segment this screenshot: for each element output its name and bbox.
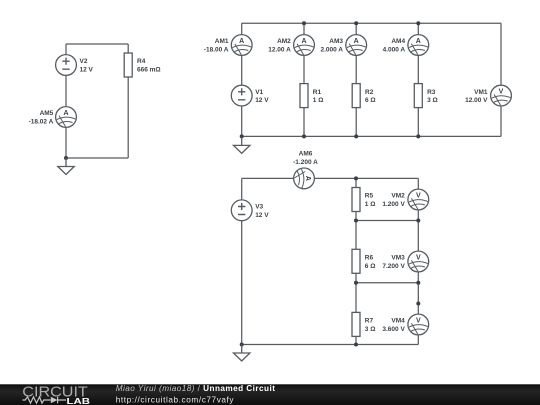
logo diode (51, 397, 58, 404)
svg-text:1 Ω: 1 Ω (365, 201, 376, 208)
svg-text:V1: V1 (255, 89, 263, 96)
svg-text:V2: V2 (80, 58, 88, 65)
svg-text:3.600 V: 3.600 V (382, 326, 405, 333)
svg-text:3 Ω: 3 Ω (427, 97, 438, 104)
svg-text:VM4: VM4 (391, 318, 405, 325)
svg-text:12.00 A: 12.00 A (268, 46, 291, 53)
wire R2 bottom lead (355, 108, 357, 137)
voltage source V1 (231, 85, 252, 106)
wire VM3 bottom lead (417, 272, 419, 283)
wire bottom rail left circuit (66, 157, 128, 159)
node row2 R5 bottom (354, 219, 358, 223)
resistor R1 (300, 84, 308, 108)
wire R7 bottom lead (355, 336, 357, 344)
wire AM3 to R2 (355, 55, 357, 83)
svg-text:R2: R2 (365, 89, 374, 96)
wire AM4 to R3 (417, 55, 419, 83)
svg-text:12.00 V: 12.00 V (465, 97, 488, 104)
svg-text:4.000 A: 4.000 A (383, 46, 406, 53)
ammeter AM3 (346, 35, 367, 56)
wire VM2 top lead (417, 178, 419, 189)
svg-text:3 Ω: 3 Ω (365, 326, 376, 333)
wire R3 bottom lead (417, 108, 419, 137)
wire AM2 top lead (303, 23, 305, 34)
voltmeter VM4 (408, 314, 429, 335)
svg-text:AM4: AM4 (391, 38, 405, 45)
resistor R6 (352, 249, 360, 273)
resistor R4 (124, 53, 132, 77)
wire VM4 bottom lead (417, 335, 419, 345)
wire R6 bottom lead (355, 273, 357, 283)
wire V2 to AM5 (65, 75, 67, 106)
wire R4 bottom lead down (127, 77, 129, 158)
svg-text:R3: R3 (427, 89, 436, 96)
voltage source V3 (231, 200, 252, 221)
wire R1 bottom lead (303, 108, 305, 137)
ammeter AM4 (408, 35, 429, 56)
wire VM1 branch top (500, 23, 502, 85)
wire node row R5-VM2 (356, 220, 418, 222)
wire VM3 top lead (417, 221, 419, 252)
wire R4 top lead (127, 44, 129, 53)
wire VM1 bottom lead (500, 106, 502, 136)
ground top circuit (234, 137, 250, 154)
wire R5 bottom lead (355, 212, 357, 221)
svg-text:-1.200 A: -1.200 A (293, 159, 318, 166)
svg-text:7.200 V: 7.200 V (382, 263, 405, 270)
wire AM3 top lead (355, 23, 357, 34)
svg-text:6 Ω: 6 Ω (365, 97, 376, 104)
node top rail AM3 (354, 21, 358, 25)
svg-text:AM5: AM5 (40, 110, 54, 117)
svg-text:R4: R4 (137, 58, 146, 65)
svg-text:666 mΩ: 666 mΩ (137, 67, 161, 74)
node bottom rail R7 (354, 343, 358, 347)
resistor R2 (352, 84, 360, 108)
voltmeter VM3 (408, 251, 429, 272)
svg-text:12 V: 12 V (80, 67, 94, 74)
wire AM1 to V1 (241, 55, 243, 85)
node bottom rail R3 (416, 134, 420, 138)
svg-text:R6: R6 (365, 255, 374, 262)
wire bottom rail (242, 344, 419, 346)
resistor R5 (352, 188, 360, 212)
svg-text:1 Ω: 1 Ω (313, 97, 324, 104)
svg-text:12 V: 12 V (255, 97, 269, 104)
node left ground junction (64, 156, 68, 160)
wire top rail right segment (314, 177, 418, 179)
svg-text:AM3: AM3 (329, 38, 343, 45)
wire top rail left circuit (66, 43, 128, 45)
ammeter AM1 (231, 35, 252, 56)
voltage source V2 (56, 55, 77, 76)
resistor R7 (352, 312, 360, 336)
logo resistor zigzag (23, 397, 51, 403)
wire V3 bottom lead (241, 221, 243, 345)
ammeter AM2 (294, 35, 315, 56)
node top rail R5 (354, 176, 358, 180)
node top rail AM4 (416, 21, 420, 25)
node row2 VM2 bottom (416, 219, 420, 223)
wire V1 bottom lead (241, 106, 243, 136)
wire top rail left segment (242, 177, 294, 179)
resistor R3 (414, 84, 422, 108)
ground left circuit (58, 158, 74, 175)
wire VM2 bottom lead (417, 210, 419, 221)
wire V2 top lead (65, 44, 67, 55)
footer background bar (0, 384, 540, 405)
wire AM2 to R1 (303, 55, 305, 83)
wire node row R6-VM3 (356, 282, 418, 284)
svg-text:AM1: AM1 (215, 38, 229, 45)
svg-text:Miao Yirui (miao18) / Unnamed: Miao Yirui (miao18) / Unnamed Circuit (116, 384, 276, 393)
node bottom rail R2 (354, 134, 358, 138)
svg-text:AM2: AM2 (277, 38, 291, 45)
svg-text:2.000 A: 2.000 A (320, 46, 343, 53)
svg-text:R1: R1 (313, 89, 322, 96)
svg-text:1.200 V: 1.200 V (382, 201, 405, 208)
ground bottom circuit (234, 345, 250, 362)
node bottom rail ground (240, 343, 244, 347)
wire AM1 top lead (241, 23, 243, 34)
svg-text:LAB: LAB (67, 397, 91, 405)
node row3 R6 bottom (354, 281, 358, 285)
wire R6 top lead (355, 221, 357, 250)
svg-text:VM3: VM3 (391, 255, 405, 262)
wire R5 top lead (355, 178, 357, 187)
svg-text:V3: V3 (255, 204, 263, 211)
wire V3 top lead (241, 178, 243, 200)
svg-text:http://circuitlab.com/c77vafy: http://circuitlab.com/c77vafy (116, 396, 235, 405)
ammeter AM5 (56, 107, 77, 128)
svg-text:VM2: VM2 (391, 193, 405, 200)
wire top rail (242, 22, 501, 24)
node bottom rail R1 (302, 134, 306, 138)
ammeter AM6 rotated (294, 168, 315, 189)
node VM4 top tap (416, 302, 420, 306)
svg-text:R7: R7 (365, 318, 374, 325)
wire bottom rail (242, 135, 501, 137)
svg-text:12 V: 12 V (255, 212, 269, 219)
svg-text:6 Ω: 6 Ω (365, 263, 376, 270)
svg-text:-18.00 A: -18.00 A (204, 46, 229, 53)
svg-text:VM1: VM1 (474, 89, 488, 96)
node top rail AM2 (302, 21, 306, 25)
voltmeter VM2 (408, 189, 429, 210)
node row3 VM3 bottom (416, 281, 420, 285)
wire AM4 top lead (417, 23, 419, 34)
svg-text:AM6: AM6 (299, 151, 313, 158)
node bottom rail ground (240, 134, 244, 138)
svg-text:-18.02 A: -18.02 A (29, 119, 54, 126)
voltmeter VM1 (491, 85, 512, 106)
svg-text:R5: R5 (365, 193, 374, 200)
wire R7 top lead (355, 283, 357, 313)
wire AM5 to ground node (65, 127, 67, 158)
wire VM4 column top (417, 283, 419, 314)
